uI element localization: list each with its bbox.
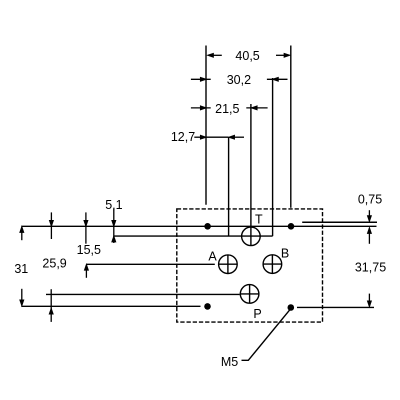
wire: horizontal centerline to port A (86, 263, 214, 265)
extension line x=272.6 port B (272, 78, 274, 236)
port P (240, 285, 259, 304)
dimension 31 arrows (20, 227, 23, 305)
dimension 12,7 line and arrows (194, 136, 244, 139)
svg-text:0,75: 0,75 (358, 193, 382, 207)
dimension 25,9 arrows (50, 212, 54, 322)
mounting hole bottom-right (M5) (288, 304, 295, 311)
svg-text:21,5: 21,5 (215, 102, 239, 116)
wire: 0,75 offset reference line right (302, 221, 377, 223)
svg-text:15,5: 15,5 (77, 243, 101, 257)
mounting hole top-right (M5) (288, 223, 295, 230)
extension line x=250.9 ports T and P (250, 104, 252, 246)
wire: horizontal centerline to port P (46, 293, 240, 295)
port B (263, 255, 282, 274)
leader line to M5 label (242, 309, 291, 360)
mounting hole top-left (M5) (204, 223, 211, 230)
wire: bottom holes line left segment (21, 305, 200, 307)
dashed mounting-pattern outline box (177, 209, 323, 322)
dimension 0,75 and 31,75 arrows (368, 210, 371, 306)
extension line x=290.8 right reference (290, 46, 292, 208)
svg-text:40,5: 40,5 (235, 49, 259, 63)
dimension 40,5 arrows (208, 54, 289, 57)
extension line x=206 left reference (205, 46, 207, 205)
wire: bottom holes line right segment (297, 306, 374, 308)
svg-text:M5: M5 (221, 355, 238, 369)
svg-text:30,2: 30,2 (227, 73, 251, 87)
dimension 21,5 arrows (191, 106, 268, 109)
mounting hole bottom-left (M5) (204, 303, 211, 310)
svg-text:T: T (255, 213, 263, 227)
dimension 15,5 arrows (84, 212, 88, 277)
dimension 30,2 arrows (191, 78, 288, 81)
wire: main horizontal line through top mounting holes (21, 225, 376, 227)
svg-text:P: P (253, 307, 261, 321)
dimension 5,1 arrows (112, 209, 115, 243)
svg-text:B: B (281, 246, 289, 260)
svg-text:A: A (208, 250, 217, 264)
svg-text:31: 31 (14, 262, 28, 276)
svg-text:25,9: 25,9 (42, 256, 66, 270)
svg-text:31,75: 31,75 (355, 261, 386, 275)
port A (219, 255, 238, 274)
wire: horizontal centerline through port T (114, 235, 273, 237)
svg-text:12,7: 12,7 (171, 130, 195, 144)
extension line x=228.6 port A (228, 137, 230, 236)
port T (242, 227, 261, 246)
svg-text:5,1: 5,1 (105, 198, 122, 212)
